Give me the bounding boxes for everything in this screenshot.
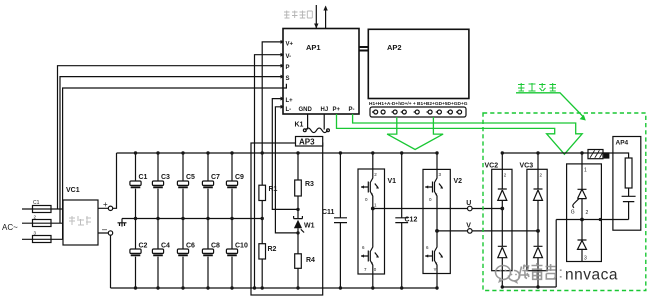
controller box AP2 xyxy=(368,29,469,98)
capacitor C8 xyxy=(202,219,220,289)
svg-text:P: P xyxy=(286,65,290,71)
fuse 1 xyxy=(33,200,52,213)
svg-text:AP3: AP3 xyxy=(299,138,315,147)
resistor R2 xyxy=(259,219,277,289)
fuse 2 xyxy=(33,215,52,227)
svg-text:C7: C7 xyxy=(211,174,220,181)
svg-text:C10: C10 xyxy=(235,243,248,250)
node V terminal xyxy=(466,223,472,234)
svg-text:H1+H1+A-D+hD+/+ + B1+B2+GD+5D+: H1+H1+A-D+hD+/+ + B1+B2+GD+5D+GD+G xyxy=(369,101,468,107)
diode bridge leg VC3 xyxy=(520,151,548,288)
wire AC phase 1 xyxy=(22,208,63,210)
zener W1 xyxy=(294,209,315,233)
label unit cell (green) + leader xyxy=(518,83,556,91)
wire V+ sense to DC+ xyxy=(262,42,283,153)
IGBT module V2 xyxy=(423,151,462,289)
resistor R4 xyxy=(295,233,315,288)
VC1 plus terminal xyxy=(98,153,117,211)
svg-text:+: + xyxy=(103,200,108,209)
wire AC phase 3 xyxy=(22,238,63,240)
svg-text:V-: V- xyxy=(286,54,292,60)
capacitor C11 xyxy=(322,151,347,289)
svg-text:C3: C3 xyxy=(161,174,170,181)
snubber box AP4 xyxy=(613,137,641,231)
watermark wechat icon + text xyxy=(495,263,617,284)
pin T hook xyxy=(283,84,286,88)
snubber capacitor xyxy=(622,188,636,202)
bus connector AP1-AP2 xyxy=(359,47,368,51)
relay K1 xyxy=(295,114,330,133)
capacitor C5 xyxy=(177,153,195,219)
capacitor C3 xyxy=(152,153,170,219)
svg-text:U: U xyxy=(466,200,471,207)
wire sense S to phase 2 xyxy=(60,77,283,224)
wire sense P to phase 1 xyxy=(58,66,284,209)
wire DC- bus xyxy=(111,287,438,289)
resistor R1 xyxy=(259,153,278,219)
svg-text:AP4: AP4 xyxy=(616,140,629,147)
controller box AP1 xyxy=(283,29,359,115)
green wiring group xyxy=(337,83,646,291)
svg-text:VC3: VC3 xyxy=(520,163,534,170)
svg-text:S: S xyxy=(286,76,290,82)
capacitor C12 xyxy=(395,151,417,289)
capacitor C7 xyxy=(202,153,220,219)
wire sense T to phase 3 xyxy=(63,88,283,239)
capacitor C9 xyxy=(226,153,244,219)
fiber-optic TX arrow xyxy=(323,6,327,29)
svg-text:R1: R1 xyxy=(269,186,278,193)
svg-text:L-: L- xyxy=(286,107,292,113)
diode lower in thyristor module xyxy=(578,220,587,262)
svg-text:GND: GND xyxy=(299,107,313,113)
svg-text:C9: C9 xyxy=(235,174,244,181)
wire L- sense to W1 cathode xyxy=(275,107,298,233)
svg-text:AC~: AC~ xyxy=(2,223,18,232)
node U terminal xyxy=(466,200,472,211)
svg-text:AP2: AP2 xyxy=(387,43,402,52)
svg-text:C1: C1 xyxy=(139,174,148,181)
thyristor V5 xyxy=(578,153,587,220)
capacitor C10 xyxy=(226,219,248,289)
svg-text:P+: P+ xyxy=(333,107,341,113)
wire DC+ bus xyxy=(117,152,438,154)
pin V+ xyxy=(281,40,294,47)
capacitor C6 xyxy=(177,219,195,289)
svg-text:1: 1 xyxy=(584,168,587,174)
wire capacitor midpoint rail xyxy=(122,219,262,223)
svg-text:VC2: VC2 xyxy=(485,163,499,170)
thyristor module box xyxy=(567,151,602,261)
svg-text:VC1: VC1 xyxy=(66,187,80,194)
svg-text:2: 2 xyxy=(586,210,589,216)
svg-text:W1: W1 xyxy=(304,223,315,230)
wire AC phase 2 xyxy=(22,222,63,224)
AP2 terminal strip xyxy=(370,107,466,117)
snubber resistor xyxy=(625,158,632,188)
wire V- sense to DC- xyxy=(255,55,284,288)
svg-text:3: 3 xyxy=(584,256,587,262)
svg-text:K1: K1 xyxy=(295,122,304,129)
unit cell dashed enclosure xyxy=(483,113,646,291)
svg-text:C4: C4 xyxy=(161,243,170,250)
svg-text:V1: V1 xyxy=(388,178,397,185)
capacitor C2 xyxy=(130,219,148,289)
wire U output xyxy=(373,208,503,210)
fiber-optic RX arrow xyxy=(314,5,318,29)
wire P+ / P- to unit (green) with hollow arrow into cell xyxy=(337,114,583,154)
diode bridge leg VC2 xyxy=(485,151,513,288)
svg-text:V: V xyxy=(466,223,471,230)
svg-text:AP1: AP1 xyxy=(306,43,321,52)
svg-text:nnvaca: nnvaca xyxy=(565,267,618,284)
wire V output xyxy=(437,230,538,232)
svg-text:L+: L+ xyxy=(286,98,294,104)
svg-text:R3: R3 xyxy=(305,181,314,188)
op box AP3 xyxy=(251,137,323,296)
svg-text:Y: Y xyxy=(434,267,437,272)
svg-text:V+: V+ xyxy=(286,41,294,47)
svg-text:C1: C1 xyxy=(33,200,40,206)
pin V- xyxy=(281,53,292,60)
capacitor C1 xyxy=(130,153,148,219)
svg-text:R4: R4 xyxy=(306,257,315,264)
svg-text:C12: C12 xyxy=(405,217,418,224)
junction dots on rails xyxy=(134,151,234,289)
pin L- xyxy=(281,105,292,113)
wire cell bottom bus xyxy=(502,286,556,288)
wire cell DC+ bus xyxy=(502,153,628,158)
svg-text:V2: V2 xyxy=(454,178,463,185)
IGBT module V1 xyxy=(358,151,396,289)
svg-text:C2: C2 xyxy=(139,243,148,250)
ground chassis symbol xyxy=(118,223,127,227)
pin S xyxy=(281,75,290,82)
svg-text:HJ: HJ xyxy=(321,107,329,113)
svg-text:P-: P- xyxy=(349,107,355,113)
svg-text:G: G xyxy=(571,210,575,216)
svg-text:C6: C6 xyxy=(186,243,195,250)
wire cell mid node xyxy=(556,202,628,287)
hollow arrow from AP2 terminals xyxy=(387,117,443,150)
svg-text:R2: R2 xyxy=(268,246,277,253)
svg-text:C8: C8 xyxy=(211,243,220,250)
svg-text:C11: C11 xyxy=(322,209,335,216)
svg-text:C5: C5 xyxy=(186,174,195,181)
rectifier bridge VC1 xyxy=(63,187,98,245)
fuse 3 xyxy=(33,231,52,243)
VC1 minus terminal xyxy=(98,224,113,288)
wire L+ sense to W1 anode xyxy=(272,99,298,210)
label fiber interface (gray) xyxy=(284,11,312,19)
pin P xyxy=(281,64,290,71)
fuse FU (hatched) on cell bus xyxy=(588,150,609,159)
resistor R3 xyxy=(295,153,314,209)
node W1 top / W1 bottom / divider taps xyxy=(253,151,300,289)
capacitor C4 xyxy=(152,219,170,289)
pin L+ xyxy=(281,97,294,104)
